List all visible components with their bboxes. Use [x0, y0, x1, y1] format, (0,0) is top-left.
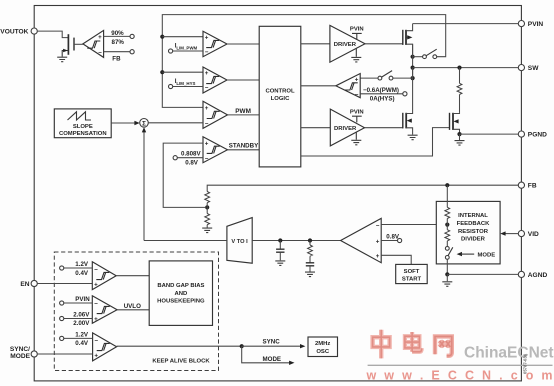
- ground of U7: [351, 48, 361, 62]
- wire slope comp to summer: [111, 121, 140, 125]
- svg-text:INTERNAL: INTERNAL: [458, 213, 488, 219]
- MODE annotation arrow: [457, 252, 496, 259]
- block 2MHz OSC: [308, 337, 338, 357]
- transistor Q3 pulldown FET: [450, 112, 460, 134]
- svg-text:+: +: [376, 253, 380, 260]
- pin AGND: [518, 271, 547, 279]
- svg-text:DIVIDER: DIVIDER: [461, 237, 486, 243]
- svg-text:+: +: [94, 353, 98, 360]
- svg-text:−: −: [205, 155, 209, 162]
- node junction on rail at ILIM_HYS: [160, 70, 203, 74]
- svg-text:VOUTOK: VOUTOK: [0, 28, 28, 35]
- svg-text:90%: 90%: [111, 30, 124, 37]
- switch S2 (zero-cross comparator connect): [360, 71, 412, 80]
- node PVIN sense input of U12: [60, 296, 93, 305]
- svg-text:SYNC/: SYNC/: [10, 346, 30, 353]
- comparator U11 EN: [92, 262, 116, 290]
- svg-text:SLOPE: SLOPE: [73, 124, 93, 130]
- svg-text:ChinaECNet: ChinaECNet: [464, 345, 554, 362]
- wire AGND rail to pin: [447, 273, 518, 275]
- transistor Q2 low-side FET: [403, 68, 413, 135]
- switch S3 MODE select: [445, 241, 452, 259]
- pin PVIN: [518, 21, 543, 29]
- svg-text:PVIN: PVIN: [350, 26, 364, 32]
- wire U10 minus input to divider tap: [381, 224, 447, 226]
- svg-text:DRIVER: DRIVER: [334, 42, 357, 48]
- svg-text:SW: SW: [528, 65, 539, 72]
- transistor Q4 (VOUTOK open drain): [62, 34, 74, 56]
- wire divider bottom to AGND rail: [446, 259, 448, 274]
- node ILIM_PWM reference input: [169, 43, 204, 53]
- wire control logic to driver U7: [301, 43, 330, 45]
- node -0.6A(PWM)/0A(HYS) reference input: [360, 87, 407, 103]
- node compensation junction R4/C2: [308, 238, 312, 242]
- svg-text:PVIN: PVIN: [75, 296, 90, 303]
- wire control logic to Q3 gate: [301, 128, 450, 156]
- svg-text:−: −: [205, 121, 209, 128]
- node FB junction: [445, 183, 449, 187]
- comparator U5 STANDBY: [203, 137, 228, 163]
- wire summer output to U4 minus: [148, 122, 203, 124]
- svg-text:+: +: [205, 105, 209, 112]
- block SOFT START: [396, 264, 428, 283]
- svg-text:FB: FB: [112, 55, 121, 62]
- comparator U3 ILIM_HYS: [203, 67, 227, 93]
- node SW junction at R1: [457, 66, 461, 70]
- keep alive block dashed box: [54, 252, 218, 371]
- svg-text:+: +: [94, 282, 98, 289]
- node junction on rail at ILIM_PWM: [160, 35, 203, 39]
- node Q3 source junction: [457, 132, 461, 136]
- comparator U13 SYNC/MODE: [93, 333, 117, 361]
- transistor Q1 high-side FET: [403, 24, 413, 55]
- svg-text:LIM_HYS: LIM_HYS: [176, 81, 195, 86]
- wire V-to-I output up into summer: [142, 127, 146, 240]
- svg-text:−: −: [94, 266, 98, 273]
- wire U10 soft-start input: [381, 255, 411, 264]
- svg-text:MODE: MODE: [478, 252, 496, 258]
- svg-text:+: +: [376, 238, 380, 245]
- wire control logic to driver U9: [301, 127, 331, 129]
- resistor R4: [308, 241, 313, 257]
- wire U11 output to bandgap block: [116, 275, 149, 277]
- svg-text:COMPENSATION: COMPENSATION: [59, 131, 107, 137]
- resistor R5 (divider top): [445, 207, 450, 218]
- node ILIM_HYS reference input: [169, 78, 204, 88]
- ground under divider: [442, 274, 452, 286]
- driver U7 (high side): [330, 25, 365, 62]
- pin SW: [518, 65, 539, 73]
- svg-text:2.00V: 2.00V: [73, 320, 90, 327]
- svg-text:−: −: [98, 50, 102, 57]
- block INTERNAL FEEDBACK RESISTOR DIVIDER: [436, 201, 500, 264]
- svg-text:0.4V: 0.4V: [75, 270, 89, 277]
- node divider tap junction: [445, 219, 449, 230]
- power tap PVIN of U9: [350, 109, 364, 122]
- node 1.2V/0.4V reference input of U11: [60, 261, 93, 277]
- wire U8 output to control logic: [301, 85, 336, 87]
- switch S1 (current sense connect): [413, 49, 437, 58]
- svg-text:+: +: [205, 34, 209, 41]
- node 0.808V/0.8V reference input: [173, 151, 203, 167]
- wire current-sense rail from switch to comparators: [162, 15, 445, 108]
- svg-text:MODE: MODE: [10, 353, 30, 360]
- ground under R3: [202, 225, 212, 233]
- svg-text:AND: AND: [175, 291, 188, 297]
- svg-text:RESISTOR: RESISTOR: [458, 229, 489, 235]
- wire MODE arrow: [242, 346, 295, 365]
- node 0.8V reference input: [381, 233, 402, 242]
- wire U12 output UVLO to bandgap block: [117, 303, 149, 310]
- svg-text:+: +: [355, 76, 359, 83]
- wire U7 output to Q1 gate: [365, 43, 403, 45]
- pin EN: [20, 280, 37, 287]
- wire Q4 gate: [74, 43, 83, 45]
- watermark 电 character: [405, 332, 422, 352]
- svg-text:MODE: MODE: [263, 356, 282, 363]
- node sync/mode junction: [240, 344, 244, 348]
- node 90%/87% threshold input: [104, 30, 135, 46]
- svg-text:Σ: Σ: [142, 120, 146, 127]
- svg-text:BAND GAP BIAS: BAND GAP BIAS: [157, 283, 204, 289]
- node AGND junction: [445, 272, 449, 276]
- svg-text:1.2V: 1.2V: [75, 331, 89, 338]
- svg-text:0.8V: 0.8V: [386, 233, 400, 240]
- node 2.06V/2.00V reference input of U12: [60, 311, 93, 327]
- node FB divider midpoint: [205, 203, 209, 214]
- pin VOUTOK: [0, 28, 37, 35]
- svg-text:LIM_PWM: LIM_PWM: [176, 45, 197, 50]
- ground under Q3: [455, 134, 465, 145]
- svg-text:SYNC: SYNC: [263, 338, 281, 345]
- pin PGND: [518, 131, 547, 139]
- svg-text:FEEDBACK: FEEDBACK: [457, 221, 490, 227]
- watermark 中 character: [373, 330, 390, 359]
- svg-text:STANDBY: STANDBY: [229, 143, 259, 150]
- node zero-cross sense junction: [411, 76, 415, 80]
- svg-text:−: −: [205, 49, 209, 56]
- ground under Q2: [408, 135, 418, 140]
- svg-text:DRIVER: DRIVER: [334, 126, 357, 132]
- ground under Q4: [57, 57, 67, 62]
- node compensation junction C1: [278, 238, 282, 242]
- resistor R3 (FB divider bottom): [205, 214, 210, 225]
- wire U5 plus input to FB divider midpoint: [163, 143, 205, 207]
- svg-text:UVLO: UVLO: [124, 303, 141, 310]
- block BAND GAP BIAS AND HOUSEKEEPING: [149, 261, 212, 326]
- comparator U2 ILIM_PWM: [203, 31, 227, 56]
- comparator U12 UVLO: [92, 296, 117, 324]
- svg-text:−: −: [94, 300, 98, 307]
- svg-text:OSC: OSC: [316, 349, 330, 355]
- wire SYNC/MODE pin to U13: [37, 353, 93, 355]
- svg-text:VID: VID: [528, 231, 539, 238]
- svg-text:2MHz: 2MHz: [315, 341, 330, 347]
- watermark separator line: [368, 364, 553, 366]
- wire U2 output to control logic: [227, 43, 259, 45]
- wire EN pin to comparator U11: [37, 283, 92, 285]
- wire PGND rail to pin: [460, 133, 519, 135]
- ground of U9: [351, 132, 361, 145]
- svg-text:0.4V: 0.4V: [75, 340, 89, 347]
- op-amp U10 error amplifier (left-pointing): [341, 218, 382, 262]
- svg-text:AGND: AGND: [528, 272, 548, 279]
- wire U4 output PWM to control logic: [228, 108, 260, 115]
- svg-text:PGND: PGND: [528, 132, 547, 139]
- comparator U8 zero-cross (left-pointing): [336, 74, 360, 99]
- svg-text:HOUSEKEEPING: HOUSEKEEPING: [157, 299, 205, 305]
- VID input arrow: [500, 231, 518, 235]
- wire V TO I input from error amp line: [144, 240, 227, 242]
- resistor R1 (SW pulldown): [457, 68, 462, 113]
- wire SYNC arrow to oscillator: [242, 338, 306, 348]
- node FB input of U1: [104, 50, 135, 63]
- driver U9 (low side): [330, 109, 364, 146]
- comparator U4 PWM: [203, 101, 228, 128]
- resistor R2 (FB divider top): [205, 192, 210, 203]
- svg-text:+: +: [205, 141, 209, 148]
- svg-text:−: −: [205, 85, 209, 92]
- svg-text:0.8V: 0.8V: [185, 159, 199, 166]
- wire error amp output to V TO I: [252, 240, 340, 242]
- svg-text:05787-036: 05787-036: [523, 353, 528, 374]
- watermark 网 character: [435, 336, 452, 355]
- svg-text:EN: EN: [20, 281, 29, 288]
- svg-text:−: −: [355, 92, 359, 99]
- svg-text:V TO I: V TO I: [231, 239, 248, 245]
- svg-text:2.06V: 2.06V: [73, 311, 90, 318]
- svg-text:LOGIC: LOGIC: [271, 96, 290, 102]
- svg-text:SOFT: SOFT: [404, 269, 420, 275]
- svg-text:START: START: [402, 276, 422, 282]
- capacitor C1: [275, 241, 285, 266]
- svg-text:PWM: PWM: [235, 108, 251, 115]
- svg-text:FB: FB: [528, 183, 537, 190]
- comparator U1 VOUTOK (left-pointing with hysteresis): [83, 30, 104, 57]
- svg-text:−: −: [94, 337, 98, 344]
- svg-text:−0.6A(PWM): −0.6A(PWM): [363, 87, 399, 94]
- wire U5 output STANDBY to control logic: [228, 143, 260, 150]
- svg-text:PVIN: PVIN: [528, 21, 544, 28]
- svg-text:+: +: [94, 316, 98, 323]
- resistor R6 (divider bottom): [445, 230, 450, 241]
- wire VOUTOK pin to Q4 drain: [37, 31, 68, 37]
- svg-text:KEEP ALIVE BLOCK: KEEP ALIVE BLOCK: [152, 359, 210, 365]
- svg-text:−: −: [376, 223, 380, 230]
- block V TO I converter: [227, 218, 252, 264]
- svg-text:0A(HYS): 0A(HYS): [370, 96, 395, 103]
- svg-text:1.2V: 1.2V: [75, 261, 89, 268]
- wire U9 output to Q2 gate: [365, 127, 403, 129]
- pin FB: [518, 182, 537, 190]
- node SW junction at Q1: [411, 66, 415, 70]
- block U6 CONTROL LOGIC: [259, 26, 301, 167]
- pin SYNC/MODE: [10, 346, 37, 360]
- svg-text:PVIN: PVIN: [350, 109, 364, 115]
- node Q1 source junction: [411, 44, 415, 78]
- wire PVIN rail to pin: [413, 23, 519, 25]
- pin VID: [518, 231, 539, 239]
- node 1.2V/0.4V reference input of U13: [60, 331, 93, 347]
- power tap PVIN of U7: [350, 26, 364, 39]
- svg-text:+: +: [98, 34, 102, 41]
- wire U3 output to control logic: [227, 79, 259, 81]
- svg-text:87%: 87%: [112, 39, 125, 46]
- capacitor C2: [305, 256, 315, 276]
- wire U13 output to sync/mode split: [117, 345, 242, 347]
- svg-text:0.808V: 0.808V: [181, 151, 201, 158]
- wire FB net: [207, 185, 518, 191]
- block SLOPE COMPENSATION: [54, 109, 111, 138]
- wire SW rail to pin: [413, 67, 519, 69]
- svg-text:+: +: [205, 70, 209, 77]
- wire FB to divider: [446, 185, 448, 207]
- summer node sigma: [140, 119, 149, 128]
- svg-text:CONTROL: CONTROL: [265, 89, 295, 95]
